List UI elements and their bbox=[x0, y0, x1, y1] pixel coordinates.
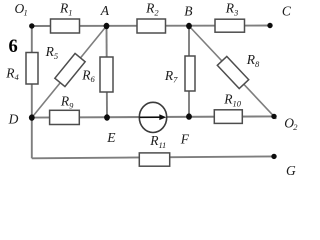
resistor R4 bbox=[26, 53, 38, 85]
node D bbox=[29, 114, 35, 120]
resistor R8 bbox=[217, 56, 248, 88]
resistor R5 bbox=[55, 53, 85, 86]
wire left vertical O1-D bbox=[31, 26, 33, 118]
current source arrow bbox=[140, 116, 161, 118]
resistor R9 bbox=[50, 110, 80, 124]
wire diagonal A-D bbox=[32, 26, 107, 118]
wire vertical B-F bbox=[188, 26, 190, 117]
svg-text:A: A bbox=[100, 3, 110, 18]
node E bbox=[104, 114, 110, 120]
current source circle bbox=[139, 102, 166, 132]
resistor R6 bbox=[100, 57, 113, 92]
resistor R3 bbox=[215, 19, 245, 32]
resistor R7 bbox=[185, 56, 195, 91]
node B bbox=[186, 23, 192, 29]
resistor R1 bbox=[51, 19, 80, 33]
resistor R2 bbox=[137, 19, 166, 33]
svg-text:D: D bbox=[8, 111, 19, 126]
node C bbox=[267, 23, 272, 28]
wire top O1-A-B-C bbox=[32, 25, 270, 28]
node F bbox=[186, 113, 192, 119]
wire vertical A-E bbox=[106, 26, 109, 118]
svg-text:G: G bbox=[286, 163, 296, 178]
svg-text:6: 6 bbox=[9, 37, 18, 57]
wire diagonal B-O2 bbox=[189, 26, 276, 119]
resistor R11 bbox=[139, 153, 169, 166]
node O1 bbox=[29, 23, 34, 28]
node G bbox=[271, 154, 276, 159]
wire ground row to G bbox=[32, 156, 274, 158]
node A bbox=[104, 23, 110, 29]
wire D down to ground row bbox=[31, 118, 33, 159]
svg-text:F: F bbox=[180, 132, 190, 147]
svg-text:B: B bbox=[184, 4, 192, 19]
svg-text:E: E bbox=[106, 130, 116, 145]
node O2 bbox=[271, 114, 276, 119]
svg-text:C: C bbox=[282, 4, 292, 19]
wire bottom row D-E-F-O2 bbox=[32, 116, 274, 117]
resistor R10 bbox=[214, 110, 242, 124]
